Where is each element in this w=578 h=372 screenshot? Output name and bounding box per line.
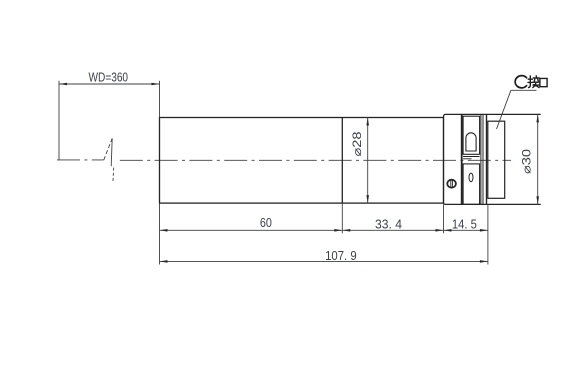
WD=360 right arrow	[152, 83, 160, 86]
clamp lower edge line	[463, 156, 480, 158]
dia28 dimension line	[367, 118, 369, 204]
row1 arrows at block	[436, 229, 444, 232]
bottom dimension line row 2 (overall)	[160, 260, 488, 262]
dia30 top arrow	[536, 114, 539, 122]
lower clamp box	[463, 164, 480, 204]
tube body (D28 barrel)	[160, 118, 444, 204]
svg-text:⌀30: ⌀30	[521, 149, 533, 174]
tube left edge extension (up to WD dim, down to bottom dims)	[159, 81, 161, 265]
dia28 top arrow	[366, 118, 369, 126]
C-mount leader line	[497, 90, 537, 129]
C-mount label	[515, 76, 547, 88]
WD=360 dimension line	[59, 83, 160, 85]
svg-text:60: 60	[260, 215, 272, 230]
set screw slot	[451, 180, 453, 188]
centerline (axis), right of break	[120, 159, 511, 161]
row2 left arrow	[160, 260, 168, 263]
svg-text:⌀28: ⌀28	[352, 132, 364, 157]
dia30 bottom arrow	[536, 196, 539, 204]
set screw	[447, 180, 456, 188]
dia28 bottom arrow	[366, 195, 369, 203]
block section divider	[461, 114, 463, 204]
row1 left arrow	[160, 229, 168, 232]
keyhole slot	[466, 133, 476, 151]
WD=360 left extension line	[58, 81, 60, 160]
row1 arrows at step	[334, 229, 342, 232]
C-mount thread flange	[488, 121, 505, 198]
bottom dimension line row 1	[160, 229, 488, 231]
mount block (D30 section) outline	[444, 114, 541, 204]
centerline (axis), left of break	[57, 159, 104, 161]
svg-text:107. 9: 107. 9	[325, 248, 357, 263]
ring line 2	[482, 114, 484, 204]
svg-text:14. 5: 14. 5	[452, 216, 477, 231]
slit line	[463, 158, 471, 160]
oval slot	[469, 173, 473, 182]
row2 right arrow	[480, 260, 488, 263]
WD=360 left arrow	[59, 83, 67, 86]
dia30 dimension line	[537, 114, 539, 204]
tube step joint line	[341, 118, 343, 204]
svg-text:WD=360: WD=360	[89, 70, 129, 85]
ring line 3	[486, 114, 488, 204]
axis break (freehand break symbol)	[104, 138, 114, 182]
upper clamp box	[463, 116, 480, 154]
ring line 1	[480, 114, 482, 204]
svg-text:33. 4: 33. 4	[375, 216, 402, 231]
step extension line down	[341, 203, 343, 233]
flange right extension down	[487, 204, 489, 264]
row1 right arrow	[480, 229, 488, 232]
block left extension line down	[443, 204, 445, 233]
